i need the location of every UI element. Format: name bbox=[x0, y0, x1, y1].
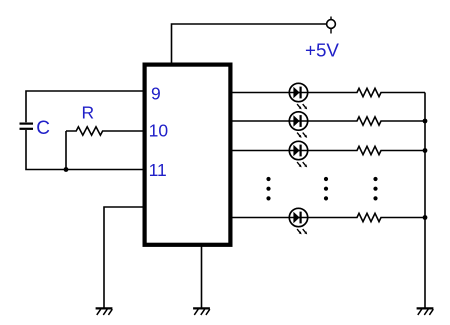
capacitor C1 bbox=[20, 124, 34, 129]
wire Vcc: IC top pin up and right to supply terminal bbox=[172, 24, 327, 63]
ellipsis column 2 bbox=[324, 177, 328, 201]
ground right bbox=[417, 308, 434, 315]
junction node rail row 4 bbox=[423, 215, 428, 220]
wire row 4 bbox=[232, 213, 425, 221]
ellipsis column 3 bbox=[373, 177, 377, 201]
ellipsis column 1 (more outputs) bbox=[266, 177, 270, 201]
junction node rail row 2 bbox=[423, 119, 428, 124]
LED D4 bbox=[289, 208, 307, 234]
LED D2 bbox=[289, 112, 307, 138]
ground middle bbox=[193, 308, 210, 315]
IC U1 (driver, pins 9/10/11) bbox=[145, 65, 231, 245]
junction node rail row 3 bbox=[423, 148, 428, 153]
wire net pin 11: capacitor bottom down and right to IC pin 11 bbox=[26, 130, 143, 170]
wire: IC left ground pin to left ground bbox=[104, 207, 143, 308]
svg-text:9: 9 bbox=[151, 83, 161, 103]
svg-text:C: C bbox=[36, 118, 50, 139]
wire row 3 bbox=[232, 146, 425, 154]
LED D1 bbox=[289, 83, 307, 109]
svg-text:11: 11 bbox=[149, 160, 167, 180]
svg-text:R: R bbox=[82, 103, 95, 123]
wire row 1: IC output through LED and resistor to rail bbox=[232, 88, 425, 96]
wire common cathode rail to ground bbox=[424, 93, 426, 308]
svg-text:10: 10 bbox=[149, 120, 169, 140]
ground left bbox=[96, 308, 113, 315]
junction node on pin 11 net bbox=[64, 167, 69, 172]
resistor R1 bbox=[66, 127, 143, 135]
wire: IC bottom pin to middle ground bbox=[201, 246, 203, 308]
wire net pin 9: capacitor top to IC pin 9 bbox=[26, 91, 143, 122]
wire: resistor left terminal down to pin 11 net bbox=[65, 131, 67, 170]
wire row 2 bbox=[232, 117, 425, 125]
svg-text:+5V: +5V bbox=[305, 39, 339, 60]
power terminal +5V (open circle with lead) bbox=[327, 17, 336, 34]
LED D3 bbox=[289, 141, 307, 167]
